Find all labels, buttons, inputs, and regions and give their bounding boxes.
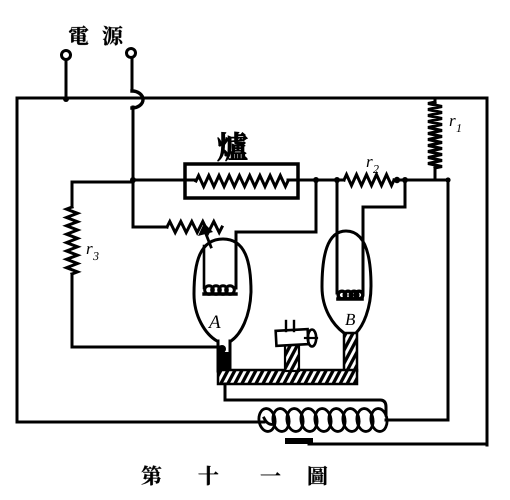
furnace box [185, 164, 298, 198]
node J1 [130, 177, 136, 183]
tube B filament coil [338, 291, 363, 299]
cathode bar (hatched) [218, 370, 357, 384]
terminal T2 (right supply terminal) [127, 49, 136, 58]
wire electrode B to main [363, 206, 405, 209]
outer loop right edge [486, 98, 489, 445]
node: electrode A return on main wire [313, 177, 319, 183]
tube B stem (hatched) [344, 333, 357, 371]
terminal T1 (left supply terminal) [62, 51, 71, 60]
node at r2 right [394, 177, 400, 183]
wire r2 to corner [394, 179, 448, 182]
bar output wire [225, 384, 386, 415]
tube B envelope [322, 231, 371, 333]
coil tap [288, 438, 310, 444]
adjuster prongs [285, 321, 287, 331]
resistor r3 [71, 182, 74, 207]
adjuster clamp [276, 329, 309, 346]
tube A right electrode [236, 232, 316, 288]
wire hop over top edge [132, 91, 143, 108]
node: T1 stem on top edge [63, 96, 69, 102]
label r3 [87, 246, 93, 254]
caption 第十一圖 Figure 11 [142, 466, 162, 486]
bottom wire right (tap to right edge) [309, 443, 487, 446]
tube A left electrode [203, 246, 206, 288]
rheostat wiper arrow from tube A electrode [206, 234, 211, 247]
bottom wire left (to coil) [17, 421, 264, 424]
tube A envelope [194, 239, 251, 341]
label B [345, 314, 355, 325]
inductor coil [257, 407, 388, 432]
wire r3 bottom to tube A base [72, 346, 220, 349]
furnace heater resistor [196, 176, 288, 187]
tube B right electrode [362, 207, 365, 293]
tube A stem (solid) [217, 352, 231, 372]
rheostat (variable resistor) [167, 222, 222, 233]
label 爐 furnace [218, 132, 248, 161]
node: r3 wire joins tube A base [218, 345, 226, 353]
wire up to main wire [315, 180, 318, 232]
rheostat feed wire [133, 226, 167, 229]
label r2 [367, 159, 373, 167]
label r1 [450, 118, 456, 126]
branch wire to r3 [72, 181, 133, 184]
tube A filament coil [204, 286, 236, 295]
node: tube B right electrode on main wire [402, 177, 408, 183]
wire furnace to r2 [288, 179, 344, 182]
label A [208, 315, 221, 328]
outer loop left edge [16, 98, 19, 422]
main horizontal wire [133, 179, 196, 182]
node: main wire corner [445, 177, 450, 182]
tube A neck [217, 341, 220, 371]
tube B left electrode from main wire [336, 180, 339, 293]
node: tube B left electrode on main wire [334, 177, 340, 183]
resistor r2 [344, 175, 394, 186]
outer circuit loop top edge [17, 97, 487, 100]
wire main corner down to coil [447, 180, 450, 420]
label 電源 power source [69, 26, 88, 45]
thumbscrew [308, 330, 316, 347]
resistor r1 [434, 98, 437, 104]
adjuster post (hatched) [285, 344, 299, 371]
wire T2 down to main node [132, 107, 135, 227]
coil right lead [386, 419, 448, 422]
